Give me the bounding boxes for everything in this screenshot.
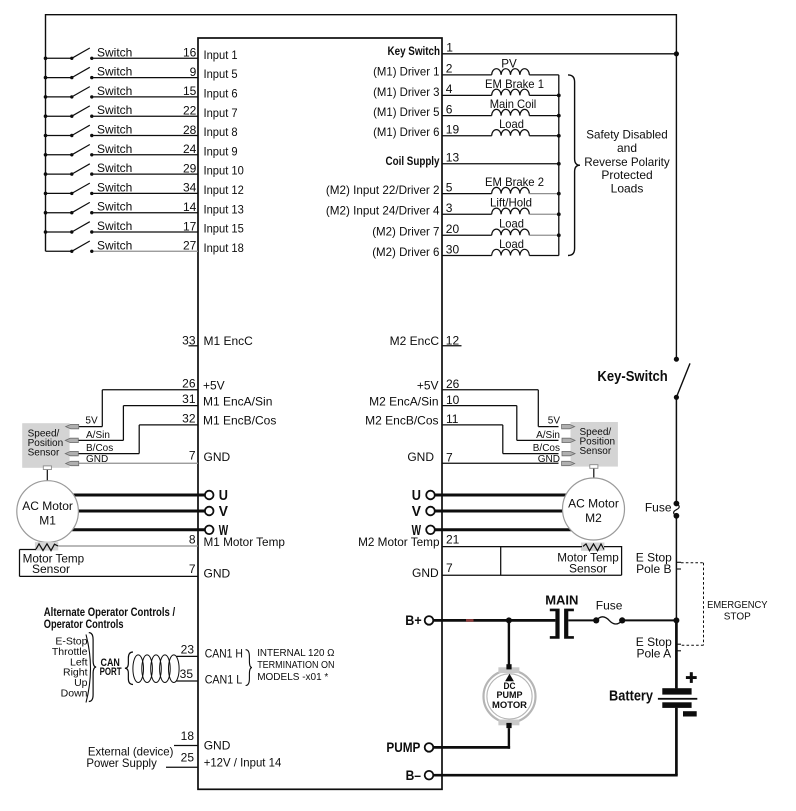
svg-text:GND: GND [407,450,434,464]
svg-text:CAN1 H: CAN1 H [205,647,243,661]
svg-text:Battery: Battery [609,687,654,704]
svg-text:Protected: Protected [601,168,652,182]
svg-text:MOTOR: MOTOR [492,700,527,711]
svg-text:21: 21 [446,533,460,547]
svg-text:(M1) Driver 6: (M1) Driver 6 [373,125,440,139]
svg-text:4: 4 [446,82,453,96]
inductor L6 Lift/Hold coil on driver pin 3 [326,196,559,218]
wire: CAN1 L pin 35 [177,667,243,686]
svg-text:26: 26 [446,377,460,391]
svg-text:TERMINATION ON: TERMINATION ON [257,660,334,671]
svg-text:M2 EncA/Sin: M2 EncA/Sin [369,394,438,408]
svg-text:M2 EncB/Cos: M2 EncB/Cos [365,414,438,428]
svg-text:28: 28 [183,123,197,137]
emergency stop dashed linkage box [681,563,768,646]
svg-text:20: 20 [446,222,460,236]
svg-text:GND: GND [204,450,231,464]
resistor RT1: M1 motor temp thermistor [35,542,58,551]
svg-text:Switch: Switch [97,142,132,156]
svg-text:GND: GND [412,566,439,580]
svg-text:M1 Motor Temp: M1 Motor Temp [204,535,286,549]
wire: pump motor to PUMP terminal [508,728,510,749]
brace: CAN termination note [246,650,252,686]
svg-text:Operator Controls: Operator Controls [44,617,124,631]
svg-text:13: 13 [446,151,460,165]
wire: pin 25 +12V [166,751,282,770]
controller U1: main controller outline box [198,38,442,789]
svg-text:19: 19 [446,123,460,137]
fuse F1 (battery fuse) [593,598,625,624]
terminal PUMP [386,739,433,755]
svg-text:30: 30 [446,242,460,256]
red mark on B+ wire [466,619,474,622]
fuse F2 (vertical, control circuit) [645,500,679,518]
labels 5V A/Sin B/Cos GND (left sensor) [85,416,113,465]
svg-text:V: V [219,503,228,520]
connector arrows into left sensor [65,424,78,465]
svg-text:GND: GND [204,566,231,580]
sensor: speed/position sensor M2 (gray box) [571,422,618,467]
svg-text:Switch: Switch [97,45,132,59]
switch S1 with wire to pin 16 (Input 1) [44,45,238,62]
connector from sensor M1 to motor [43,466,51,482]
svg-text:Sensor: Sensor [28,447,60,458]
svg-text:18: 18 [181,729,195,743]
e-stop pole A contact ticks [636,635,681,661]
wire: right rail key-switch to fuse [675,397,677,503]
svg-text:M1 EncB/Cos: M1 EncB/Cos [203,414,276,428]
svg-text:25: 25 [181,751,195,765]
svg-text:15: 15 [183,84,197,98]
svg-text:(M2) Driver 7: (M2) Driver 7 [372,225,440,239]
terminal B- [406,767,434,783]
svg-text:5V: 5V [85,416,98,427]
svg-text:(M1) Driver 5: (M1) Driver 5 [373,105,440,119]
switch S6 with wire to pin 24 (Input 9) [44,142,238,159]
junction: B+ / pump motor tap [506,617,512,623]
svg-text:Load: Load [499,117,524,131]
svg-text:M1 EncC: M1 EncC [204,334,254,348]
switch S10 with wire to pin 17 (Input 15) [44,219,244,236]
wire: junction down to pump motor [508,620,510,665]
wire: pin 18 GND [174,729,231,752]
wires U V W to motor M2 (heavy) [435,495,580,530]
svg-text:Switch: Switch [97,238,132,252]
svg-text:Input 1: Input 1 [204,48,238,62]
svg-text:and: and [617,141,637,155]
svg-text:EM Brake 2: EM Brake 2 [485,175,544,189]
brace: list to CAN PORT [89,633,96,702]
svg-text:Sensor: Sensor [569,562,607,576]
switch S8 with wire to pin 34 (Input 12) [44,180,244,197]
wire: pin 7 GND right [407,450,558,464]
svg-text:Safety Disabled: Safety Disabled [586,128,667,142]
svg-text:V: V [412,503,421,520]
svg-text:(M1) Driver 1: (M1) Driver 1 [373,64,440,78]
brace: safety loads group [568,75,580,256]
svg-text:32: 32 [182,411,196,425]
svg-text:Load: Load [499,237,524,251]
svg-text:Reverse Polarity: Reverse Polarity [584,155,670,169]
e-stop pole B contact ticks [636,551,681,577]
key switch pin 1 wire to right rail [388,40,680,58]
svg-text:M2 EncC: M2 EncC [390,334,440,348]
wire: top rail from left bus to right rail [46,14,677,16]
svg-text:Down: Down [61,687,88,699]
label: CAN PORT [100,657,122,678]
motor: DC pump motor [484,664,536,728]
wire: right rail fuse to battery + [675,516,677,621]
connector from sensor M2 to motor [590,465,598,480]
wire: left switch bus vertical [45,14,47,251]
svg-text:Switch: Switch [97,123,132,137]
brace: CAN PORT to twisted pair [125,652,133,685]
svg-text:Lift/Hold: Lift/Hold [490,196,532,210]
svg-text:Sensor: Sensor [580,446,612,457]
wire: pin 8 M1 Motor Temp (gray) [58,533,285,550]
wire: CAN1 H pin 23 [177,643,243,661]
svg-text:35: 35 [180,667,194,681]
svg-text:AC Motor: AC Motor [22,499,73,513]
svg-text:29: 29 [183,161,197,175]
svg-text:INTERNAL 120 Ω: INTERNAL 120 Ω [257,648,335,659]
coil supply pin 13 wire [386,151,559,169]
svg-text:Input 13: Input 13 [204,202,245,216]
svg-text:2: 2 [446,62,453,76]
inductor L1 PV coil on driver pin 2 [373,56,559,78]
svg-text:MAIN: MAIN [545,592,578,607]
label: internal termination note [257,648,335,683]
svg-text:Key Switch: Key Switch [388,44,441,58]
svg-text:B–: B– [406,767,422,783]
label: external power supply [86,744,173,770]
svg-text:11: 11 [446,412,459,426]
wire: MAIN to fuse [568,619,593,621]
junction: right rail at B+ line [673,617,679,623]
inductor L7 Load coil on driver pin 20 [372,217,559,239]
svg-text:7: 7 [446,451,453,465]
svg-text:8: 8 [189,533,196,547]
svg-text:(M2) Input 22/Driver 2: (M2) Input 22/Driver 2 [326,183,440,197]
svg-text:7: 7 [446,561,453,575]
svg-text:Fuse: Fuse [596,598,623,612]
svg-text:+12V / Input 14: +12V / Input 14 [204,755,282,769]
svg-text:Input 15: Input 15 [204,222,245,236]
box: Motor Temp Sensor M2 [442,546,622,576]
svg-text:B+: B+ [405,612,421,628]
labels 5V A/Sin B/Cos GND (right sensor) [533,416,561,465]
svg-text:(M2) Input 24/Driver 4: (M2) Input 24/Driver 4 [326,204,440,218]
svg-text:Input 5: Input 5 [204,67,238,81]
svg-text:31: 31 [182,392,196,406]
svg-text:Switch: Switch [97,180,132,194]
wire: loads common bus vertical [558,75,560,256]
svg-text:U: U [219,487,228,504]
svg-text:GND: GND [86,454,108,465]
svg-text:B/Cos: B/Cos [86,443,113,454]
svg-text:PUMP: PUMP [386,739,420,755]
svg-text:EMERGENCY: EMERGENCY [707,600,768,611]
svg-text:Input 12: Input 12 [204,183,245,197]
pin 7 GND (below M1 temp) [189,562,231,580]
svg-text:M2 Motor Temp: M2 Motor Temp [358,535,440,549]
switch S2 with wire to pin 9 (Input 5) [44,65,238,82]
svg-text:Input 18: Input 18 [204,241,245,255]
svg-text:1: 1 [446,40,453,54]
terminals U V W (M1 side) [205,487,228,504]
wire: pin 32 M1 EncB/Cos [78,411,277,453]
connector arrows into right sensor [562,424,575,465]
svg-text:AC Motor: AC Motor [568,497,619,511]
svg-text:5: 5 [446,180,453,194]
svg-text:STOP: STOP [724,611,751,622]
motor: AC Motor M1 circle [17,481,79,543]
svg-text:GND: GND [204,739,231,753]
wire: pin 31 M1 EncA/Sin [78,392,273,440]
svg-text:Switch: Switch [97,219,132,233]
wire: B- to battery [433,774,677,777]
pin 12 M2 EncC stub [390,334,462,348]
svg-text:M2: M2 [585,511,602,525]
wire: pin 11 M2 EncB/Cos [365,412,558,453]
switch S9 with wire to pin 14 (Input 13) [44,200,244,217]
wire: battery - down to B- rail [675,708,678,775]
wire: fuse to right rail [625,619,676,621]
label: alternate operator controls [44,605,176,631]
svg-text:Power Supply: Power Supply [86,756,156,770]
wire: pin 7 GND left (gray) [79,449,231,465]
svg-text:14: 14 [183,200,197,214]
svg-text:34: 34 [183,181,197,195]
wire: pin 21 M2 Motor Temp [358,533,583,549]
svg-text:Coil Supply: Coil Supply [386,154,440,168]
svg-text:Pole B: Pole B [636,562,671,576]
svg-text:Input 6: Input 6 [204,87,238,101]
svg-text:Sensor: Sensor [32,562,70,576]
svg-text:(M2) Driver 6: (M2) Driver 6 [372,245,440,259]
svg-text:Main Coil: Main Coil [490,97,537,111]
switch: key-switch on right rail [597,357,690,400]
svg-text:Switch: Switch [97,84,132,98]
svg-text:Pole A: Pole A [636,646,671,660]
svg-text:5V: 5V [548,416,561,427]
wire: pin 26 +5V right [417,377,559,427]
svg-text:Input 10: Input 10 [204,164,245,178]
svg-text:M1: M1 [39,513,56,527]
svg-text:A/Sin: A/Sin [536,430,560,441]
svg-text:(M1) Driver 3: (M1) Driver 3 [373,85,440,99]
svg-text:26: 26 [182,376,196,390]
inductor L2 EM Brake 1 coil on driver pin 4 [373,77,559,99]
svg-text:CAN1 L: CAN1 L [205,672,243,686]
svg-text:PORT: PORT [100,666,122,678]
svg-text:7: 7 [189,562,196,576]
svg-text:10: 10 [446,393,460,407]
sensor: speed/position sensor M1 (gray box) [22,423,69,468]
terminal B+ [405,612,433,628]
svg-text:22: 22 [183,104,197,118]
svg-text:16: 16 [183,46,197,60]
pin 7 GND (below M2 temp) [412,561,453,580]
wire: B+ to MAIN contactor [433,619,555,622]
wire: pin 26 +5V left [78,376,225,426]
svg-text:M1 EncA/Sin: M1 EncA/Sin [203,394,272,408]
svg-text:12: 12 [446,334,460,348]
svg-text:Load: Load [499,217,524,231]
terminals U V W (M2 side) [412,487,435,504]
svg-text:Input 8: Input 8 [204,125,238,139]
box: Motor Temp Sensor M1 [20,550,199,577]
wire: pin 10 M2 EncA/Sin [369,393,558,440]
junction dots on loads bus [557,94,561,238]
inductor L3 Main Coil on driver pin 6 [373,97,559,119]
resistor RT2: M2 motor temp thermistor [581,543,604,551]
svg-text:Loads: Loads [611,181,644,195]
svg-text:17: 17 [183,219,197,233]
svg-text:Switch: Switch [97,65,132,79]
svg-text:+5V: +5V [203,378,225,392]
inductor L4 Load coil on driver pin 19 [373,117,559,139]
switch S3 with wire to pin 15 (Input 6) [44,84,238,101]
inductor L5 EM Brake 2 coil on driver pin 5 [326,175,559,197]
paren around signal list [86,635,91,703]
svg-text:U: U [412,487,421,504]
switch S4 with wire to pin 22 (Input 7) [44,103,238,120]
svg-text:Input 7: Input 7 [204,106,238,120]
svg-text:PV: PV [501,56,517,70]
battery BT1 [609,672,697,716]
svg-text:+5V: +5V [417,378,439,392]
svg-text:23: 23 [181,643,195,657]
svg-text:Switch: Switch [97,161,132,175]
svg-text:MODELS -x01 *: MODELS -x01 * [257,672,328,683]
svg-text:Fuse: Fuse [645,500,672,514]
svg-text:Input 9: Input 9 [204,144,238,158]
svg-text:9: 9 [190,65,197,79]
wires U V W to motor M1 (heavy) [60,495,205,530]
svg-text:Switch: Switch [97,103,132,117]
motor: AC Motor M2 circle [563,478,625,540]
inductor L8 Load coil on driver pin 30 [372,237,559,259]
svg-text:7: 7 [189,449,196,463]
twisted pair loops [133,655,179,683]
switch S5 with wire to pin 28 (Input 8) [44,123,238,140]
svg-text:EM Brake 1: EM Brake 1 [485,77,544,91]
svg-text:24: 24 [183,142,197,156]
label: Safety Disabled and Reverse Polarity Protected Loads [584,128,670,196]
svg-text:33: 33 [182,334,196,348]
svg-text:6: 6 [446,102,453,116]
svg-text:GND: GND [538,454,560,465]
switch S7 with wire to pin 29 (Input 10) [44,161,244,178]
svg-text:27: 27 [183,239,197,253]
pin 33 M1 EncC stub [182,334,253,348]
switch S11 with wire to pin 27 (Input 18) [46,238,245,255]
svg-text:Key-Switch: Key-Switch [597,368,667,385]
svg-text:3: 3 [446,201,453,215]
list: CAN port signals [52,636,88,700]
svg-text:B/Cos: B/Cos [533,443,560,454]
svg-text:A/Sin: A/Sin [86,430,110,441]
wire: right rail top segment (to key-switch) [675,14,677,359]
contactor MAIN (tip contacts) [545,592,578,638]
svg-text:Switch: Switch [97,200,132,214]
